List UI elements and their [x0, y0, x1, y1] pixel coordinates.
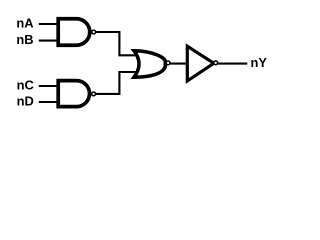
- wire U1 output to NOR top input (right, down, right): [96, 32, 138, 55]
- svg-text:nC: nC: [17, 78, 34, 93]
- nor gate U3 body: [134, 51, 165, 77]
- svg-text:nY: nY: [251, 55, 268, 70]
- nand gate U2 output bubble: [92, 92, 96, 96]
- svg-text:nB: nB: [16, 32, 33, 47]
- nand gate U1 output bubble: [92, 30, 96, 34]
- wire nD input stub: [39, 101, 60, 103]
- nor gate U3 output bubble: [166, 61, 170, 65]
- nand gate U2 body: [58, 81, 89, 107]
- wire U3 output to inverter input: [170, 63, 186, 65]
- svg-text:nD: nD: [17, 94, 34, 109]
- wire U2 output to NOR bottom input (right, up, right): [96, 72, 138, 94]
- inverter U4 output bubble: [214, 61, 218, 65]
- inverter U4 triangle: [187, 46, 214, 81]
- wire nA input stub: [39, 23, 60, 25]
- wire U4 output to nY: [218, 63, 248, 65]
- wire nC input stub: [39, 85, 60, 87]
- wire nB input stub: [39, 40, 60, 42]
- svg-text:nA: nA: [16, 15, 33, 30]
- nand gate U1 body: [58, 19, 90, 46]
